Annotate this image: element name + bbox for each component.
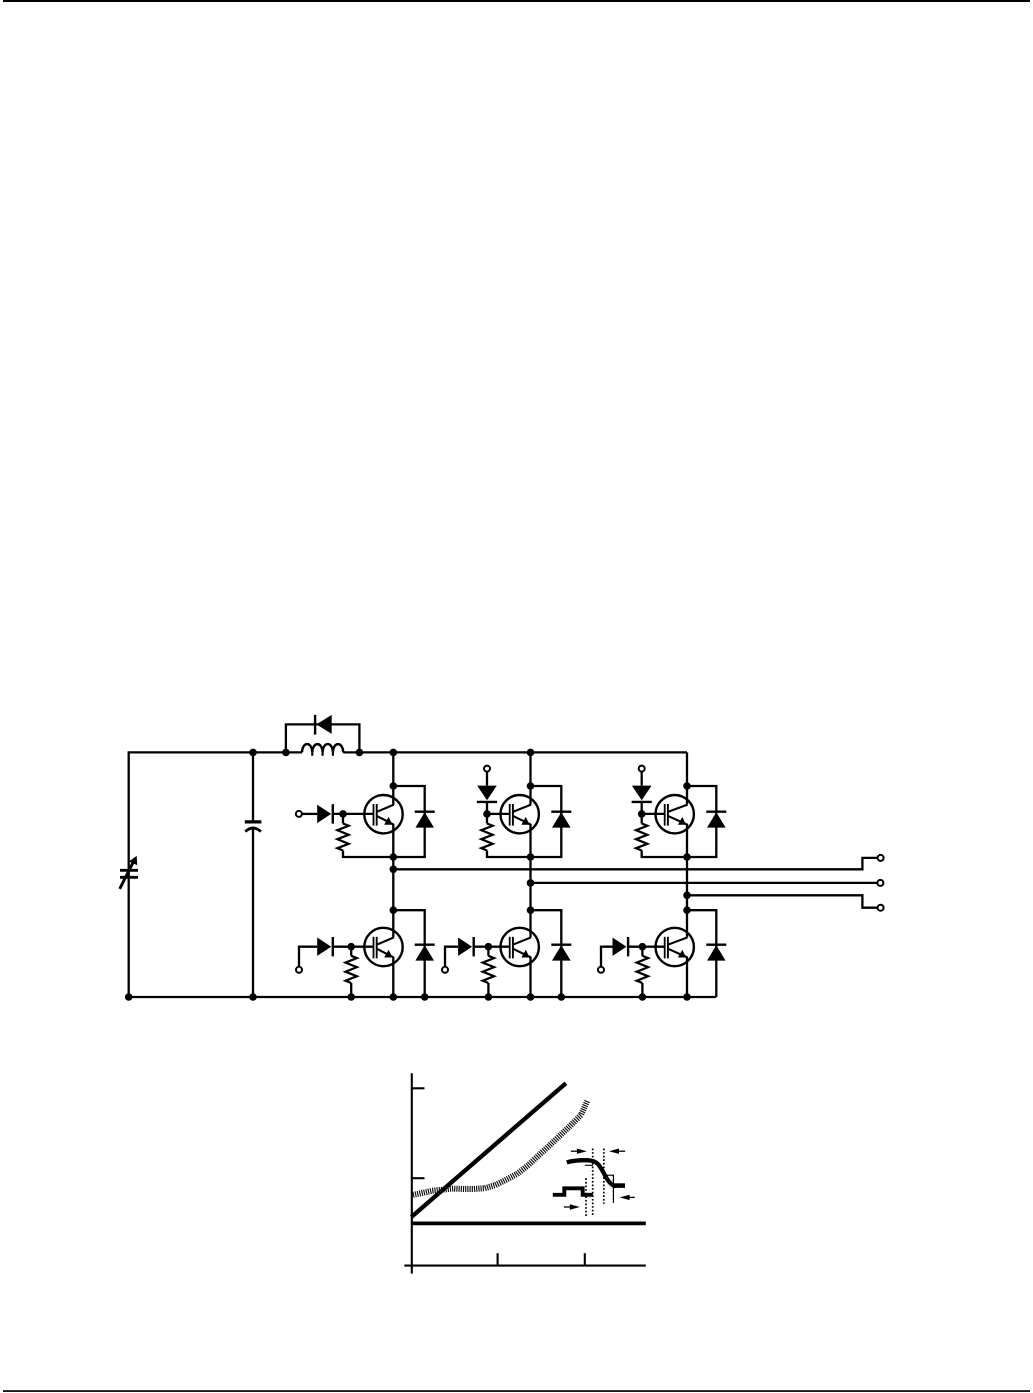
- wire gate diode to base Q1: [333, 813, 374, 815]
- node resistor R2 bottom: [347, 993, 355, 1001]
- resistor R2: [346, 956, 357, 983]
- node resistor R6 bottom: [639, 993, 647, 1001]
- wire resistor R1 to emitter: [342, 851, 344, 858]
- wire gate input Q6: [601, 947, 613, 968]
- transistor Q4: [501, 928, 539, 966]
- inset thin ref line left: [585, 1164, 593, 1166]
- node freewheel lower D2 bottom: [421, 993, 429, 1001]
- node cell1 loop top: [390, 782, 398, 790]
- node cell3 bottom bus: [683, 993, 691, 1001]
- transistor Q6: [656, 928, 694, 966]
- node cell1 bottom bus: [390, 993, 398, 1001]
- graph straight ramp line: [411, 1083, 566, 1217]
- node gate junction Q5: [638, 810, 646, 818]
- wire freewheel loop upper cell2: [531, 786, 562, 857]
- node cell2 bottom bus: [527, 993, 535, 1001]
- wire resistor R6 bottom stub: [641, 983, 643, 997]
- inset S-curve: [567, 1160, 614, 1185]
- wire gate diode to base Q2: [333, 946, 374, 948]
- graph X axis: [404, 1265, 645, 1267]
- node cell1 phase tap: [390, 866, 398, 874]
- terminal phase V: [877, 880, 883, 886]
- resistor R3: [481, 824, 492, 851]
- diode D4 freewheel lower: [551, 945, 571, 961]
- node cell2 top bus: [527, 749, 535, 757]
- terminal input Q5: [639, 766, 645, 772]
- node bottom bus left corner: [125, 993, 133, 1001]
- node top bus inductor left: [282, 749, 290, 757]
- wire cell3 bus emitter upper to lower collector: [686, 824, 688, 937]
- diode gate Q3: [477, 786, 497, 802]
- wire gate diode to base Q6: [628, 946, 665, 948]
- node cell1 lower loop top: [390, 906, 398, 914]
- node cell1 emitter: [390, 853, 398, 861]
- node gate junction Q6: [639, 943, 647, 951]
- node gate junction Q2: [347, 943, 355, 951]
- diode gate Q6: [613, 937, 629, 956]
- inset arrow left mid: [620, 1195, 635, 1200]
- node cell2 emitter: [527, 853, 535, 861]
- inset S-curve right bar: [613, 1183, 626, 1188]
- inset arrow right bottom: [564, 1204, 580, 1209]
- wire gate input Q2: [299, 947, 317, 968]
- inset dashed vertical t2b: [612, 1175, 614, 1203]
- graph Y axis: [411, 1073, 413, 1273]
- wire emitter line upper cell1: [342, 856, 426, 858]
- wire cell1 lower emitter: [392, 957, 394, 997]
- wire resistor R3 to emitter: [486, 851, 488, 858]
- wire top DC bus: [128, 751, 302, 753]
- wire resistor R6 top stub: [641, 947, 643, 956]
- wire gate input Q3: [486, 771, 488, 785]
- capacitor C1 wire top: [252, 752, 254, 820]
- wire clamp diode loop: [286, 724, 360, 752]
- terminal input Q4: [442, 967, 448, 973]
- node resistor R4 bottom: [485, 993, 493, 1001]
- terminal input Q6: [598, 967, 604, 973]
- wire gate diode to base Q4: [474, 946, 510, 948]
- variable DC source symbol: [120, 856, 138, 889]
- wire resistor R5 to emitter: [641, 851, 643, 858]
- graph X tick 1: [497, 1253, 499, 1265]
- wire cell3 bus collector upper: [686, 752, 688, 804]
- wire resistor R4 top stub: [487, 947, 489, 956]
- wire cell1 bus collector upper: [392, 752, 394, 804]
- wire cell2 lower emitter: [529, 957, 531, 997]
- wire cell2 bus emitter upper to lower collector: [529, 824, 531, 937]
- diode D1 freewheel upper: [415, 812, 435, 828]
- wire cell1 bus emitter upper to lower collector: [392, 824, 394, 937]
- terminal input Q1: [296, 811, 302, 817]
- resistor R5: [636, 824, 647, 851]
- transistor Q3: [501, 795, 539, 833]
- wire base Q5: [642, 813, 665, 815]
- terminal phase W: [878, 905, 884, 911]
- terminal input Q3: [484, 766, 490, 772]
- node gate junction Q4: [485, 943, 493, 951]
- node cell3 loop top: [683, 782, 691, 790]
- resistor R1: [337, 824, 348, 851]
- wire gate input Q4: [445, 947, 458, 968]
- wire cell2 bus collector upper: [529, 752, 531, 804]
- resistor R6: [637, 956, 648, 983]
- diode gate Q1: [317, 804, 333, 823]
- node top bus at capacitor: [249, 749, 257, 757]
- node cell3 lower loop top: [683, 906, 691, 914]
- clamp diode D7: [315, 715, 332, 735]
- wire bottom DC bus: [128, 996, 717, 998]
- inset thin step line: [605, 1175, 614, 1203]
- transistor Q5: [656, 795, 694, 833]
- inset arrow right top: [571, 1149, 587, 1154]
- wire resistor R1 top stub: [342, 814, 344, 824]
- capacitor C1: [245, 822, 262, 832]
- diode D2 freewheel lower: [415, 945, 435, 961]
- graph Y tick 1: [412, 1087, 425, 1089]
- inset dashed vertical t1b: [592, 1149, 594, 1217]
- inset arrow left top: [609, 1149, 625, 1154]
- wire phase output U: [393, 858, 877, 869]
- wire left source vertical: [128, 752, 130, 997]
- wire top DC bus right of inductor: [343, 751, 687, 753]
- wire resistor R2 bottom stub: [350, 983, 352, 997]
- wire gate input Q5: [641, 771, 643, 785]
- diode D6 freewheel lower: [706, 945, 726, 961]
- diode gate Q5: [632, 786, 652, 802]
- resistor R4: [483, 956, 494, 983]
- transistor Q1: [364, 795, 402, 833]
- node gate junction Q3: [483, 810, 491, 818]
- node top bus inductor right: [356, 749, 364, 757]
- wire resistor R2 top stub: [350, 947, 352, 956]
- wire emitter line upper cell2: [486, 856, 563, 858]
- wire freewheel loop upper cell3: [687, 786, 716, 857]
- wire emitter line upper cell3: [641, 856, 718, 858]
- wire resistor R3 top stub: [486, 814, 488, 824]
- diode D3 freewheel upper: [551, 812, 571, 828]
- node cell3 emitter: [683, 853, 691, 861]
- wire base Q3: [487, 813, 510, 815]
- node cell2 lower loop top: [527, 906, 535, 914]
- node gate junction Q1: [339, 810, 347, 818]
- bottom rule: [3, 1390, 1030, 1392]
- terminal phase U: [878, 855, 884, 861]
- inductor L1: [302, 744, 343, 752]
- capacitor C1 wire bottom: [252, 827, 254, 997]
- wire freewheel loop lower cell2: [531, 910, 562, 997]
- terminal input Q2: [296, 967, 302, 973]
- inset step waveform: [553, 1188, 593, 1195]
- wire freewheel loop lower cell3: [687, 910, 716, 997]
- transistor Q2: [364, 928, 402, 966]
- graph thick zero line: [412, 1222, 646, 1226]
- node freewheel lower D4 bottom: [558, 993, 566, 1001]
- node cell2 loop top: [527, 782, 535, 790]
- node cell1 top bus: [390, 749, 398, 757]
- wire gate diode to base Q3: [486, 802, 488, 814]
- node cell2 phase tap: [527, 879, 535, 887]
- inset dashed vertical t2a: [603, 1149, 605, 1204]
- wire cell3 lower emitter: [686, 957, 688, 997]
- wire freewheel loop upper cell1: [393, 786, 424, 857]
- wire resistor R4 bottom stub: [487, 983, 489, 997]
- wire resistor R5 top stub: [641, 814, 643, 824]
- wire phase output W: [687, 895, 878, 907]
- graph X tick 2: [584, 1253, 586, 1265]
- wire gate input Q1: [302, 813, 318, 815]
- diode gate Q4: [458, 937, 474, 956]
- graph Y tick 2: [412, 1177, 425, 1179]
- wire gate diode to base Q5: [641, 802, 643, 814]
- graph hatched curve: [413, 1100, 590, 1197]
- wire phase output V: [531, 882, 878, 884]
- top rule: [3, 0, 1030, 2]
- wire freewheel loop lower cell1: [393, 910, 424, 997]
- diode gate Q2: [317, 937, 333, 956]
- node bottom bus at capacitor: [249, 993, 257, 1001]
- diode D5 freewheel upper: [706, 812, 726, 828]
- inset dashed vertical t1a: [585, 1178, 587, 1217]
- node cell3 phase tap: [683, 892, 691, 900]
